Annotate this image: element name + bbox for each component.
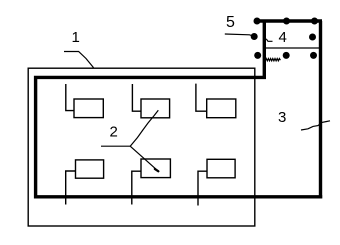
outer casing rectangle (item 1) (28, 68, 255, 226)
terminal dot middle right (309, 34, 316, 41)
heating element top-right: body rect (207, 99, 236, 118)
callout leader 2 lower arm (130, 146, 158, 171)
terminal dot bottom row (254, 52, 261, 59)
heating element top-right: lead wire (196, 84, 207, 112)
callout leader 1 (64, 52, 94, 68)
callout leader 2 arrow tip (155, 169, 159, 171)
callout leader 3 (301, 121, 330, 130)
heating element bottom-right: body rect (207, 159, 235, 178)
svg-text:1: 1 (72, 29, 80, 46)
heating coil zigzag (264, 59, 280, 61)
svg-text:3: 3 (278, 109, 286, 126)
heating element top-middle: lead wire (132, 84, 141, 111)
terminal block left wall (263, 20, 266, 78)
svg-text:5: 5 (226, 14, 235, 31)
callout leader 2 horizontal (101, 145, 130, 147)
terminal dot middle left (item 5 target) (251, 33, 258, 40)
heater body thick outline (top/left/bottom walls) (36, 77, 323, 196)
svg-text:4: 4 (279, 29, 287, 46)
heating element top-left: lead wire (66, 84, 74, 111)
terminal block divider line (264, 47, 321, 49)
callout leader 5 (225, 34, 254, 36)
callout leader 4 (266, 39, 272, 42)
heating element bottom-right: lead wire (198, 171, 207, 205)
heating element bottom-left: body rect (76, 160, 104, 178)
callout leader 2 upper arm (130, 110, 158, 146)
heating element top-middle (item 2): body rect (141, 99, 170, 118)
svg-text:2: 2 (110, 124, 118, 141)
thick right wall / riser (item 3) (319, 21, 322, 198)
terminal block top bar (item 4) (255, 19, 322, 22)
heating element bottom-middle: lead wire (132, 171, 141, 204)
heating element top-left: body rect (74, 99, 103, 118)
heating element bottom-left: lead wire (66, 171, 76, 205)
terminal dot row top (254, 18, 261, 25)
heating element bottom-middle: body rect (141, 159, 170, 178)
